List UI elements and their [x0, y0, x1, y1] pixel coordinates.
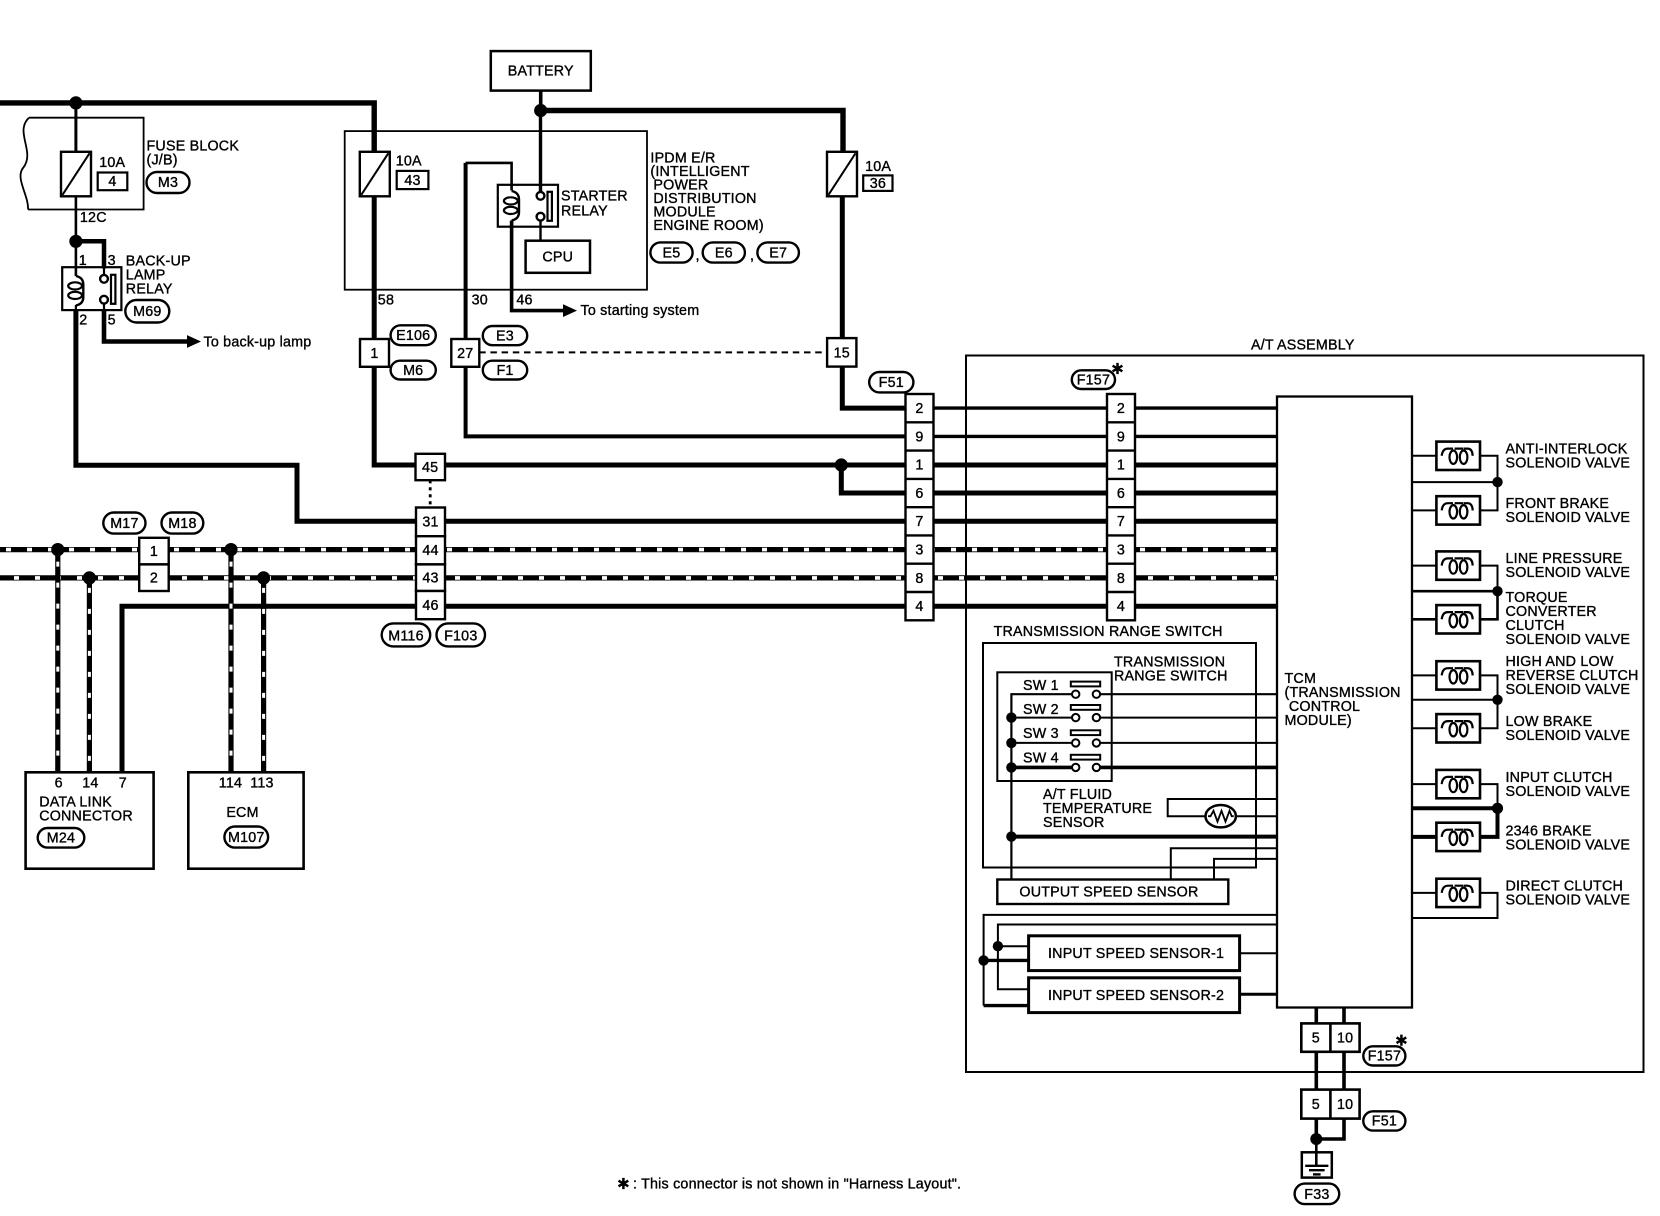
svg-text:M116: M116	[388, 628, 424, 644]
solenoid coil anti-interlock	[1436, 442, 1480, 470]
back-up lamp relay contact	[100, 275, 115, 304]
fuse 4	[61, 152, 91, 197]
connector column F157 pins 2 9 1 6 7 3 8 4	[1107, 394, 1135, 620]
solenoid coil line pressure	[1436, 551, 1480, 579]
svg-text:4: 4	[108, 174, 116, 190]
svg-text:F157: F157	[1368, 1049, 1401, 1065]
oval connector M107	[224, 827, 268, 848]
svg-text:5: 5	[1312, 1031, 1320, 1047]
switch SW1	[1071, 682, 1100, 698]
connector box F51 pins 5 10	[1301, 1090, 1359, 1119]
svg-text:44: 44	[422, 543, 438, 559]
svg-text:M18: M18	[168, 516, 196, 532]
wire input speed sensor ground loop outer	[984, 915, 1277, 1006]
footnote asterisk	[619, 1178, 629, 1189]
input speed sensor-1 box	[1029, 936, 1240, 971]
wire dashed ECM pin 114 drop	[228, 550, 233, 773]
svg-text:E6: E6	[715, 245, 733, 261]
svg-text:2: 2	[915, 401, 923, 417]
oval connector F103	[437, 623, 486, 646]
back-up lamp relay coil	[68, 276, 83, 306]
svg-text:46: 46	[422, 598, 438, 614]
wire output speed sensor signal 1	[1171, 848, 1277, 879]
svg-text:45: 45	[422, 460, 438, 476]
svg-text:E7: E7	[769, 245, 787, 261]
svg-text:7: 7	[1117, 514, 1125, 530]
svg-text:TRANSMISSION RANGE SWITCH: TRANSMISSION RANGE SWITCH	[994, 624, 1223, 640]
svg-text:ECM: ECM	[226, 805, 258, 821]
svg-text:F1: F1	[496, 363, 513, 379]
oval connector E5	[650, 242, 692, 262]
CPU box	[526, 241, 590, 273]
svg-text:A/T ASSEMBLY: A/T ASSEMBLY	[1251, 338, 1355, 354]
connector box F157 pins 5 10	[1301, 1023, 1359, 1051]
svg-text:INPUT SPEED SENSOR-2: INPUT SPEED SENSOR-2	[1048, 988, 1224, 1004]
wire row pin 7	[906, 519, 1278, 524]
svg-text:M6: M6	[403, 363, 423, 379]
IPDM E/R box	[345, 131, 647, 290]
node SW3 junction	[1006, 738, 1016, 748]
svg-text:To back-up lamp: To back-up lamp	[204, 334, 312, 350]
solenoid coil torque converter clutch	[1436, 605, 1480, 633]
svg-text:CONNECTOR: CONNECTOR	[39, 808, 133, 824]
oval connector M69	[125, 300, 169, 323]
starter relay coil	[504, 191, 519, 221]
svg-text:F33: F33	[1304, 1187, 1329, 1203]
fuse number cell 36	[863, 175, 892, 192]
starter relay box	[498, 185, 558, 227]
node bus1 to ECM	[224, 543, 237, 556]
svg-text:SOLENOID VALVE: SOLENOID VALVE	[1506, 456, 1631, 472]
A/T ASSEMBLY box	[966, 338, 1644, 1073]
input speed sensor-2 box	[1029, 978, 1240, 1013]
wire input speed sensor-1 output	[1240, 952, 1277, 954]
svg-text:RELAY: RELAY	[561, 204, 608, 220]
svg-text:E106: E106	[396, 328, 430, 344]
svg-text:5: 5	[1312, 1097, 1320, 1113]
node bus2 to DLC	[83, 571, 96, 584]
svg-text:27: 27	[457, 346, 473, 362]
svg-text:MODULE): MODULE)	[1285, 713, 1352, 729]
wire SW4 to TCM bold	[1011, 766, 1277, 770]
connector cell 27 (E3/F1)	[451, 339, 479, 367]
svg-text:4: 4	[1117, 599, 1125, 615]
svg-text:10A: 10A	[99, 155, 125, 171]
wire solenoid common 1	[1412, 481, 1498, 483]
A/T fluid temperature sensor element	[1206, 805, 1236, 827]
oval connector M18	[162, 513, 204, 534]
asterisk F157 top	[1113, 363, 1123, 374]
node switch common junction	[1006, 831, 1016, 841]
svg-text:ENGINE ROOM): ENGINE ROOM)	[653, 218, 763, 234]
svg-text:3: 3	[108, 253, 116, 269]
svg-text:(J/B): (J/B)	[147, 152, 178, 168]
svg-text:SOLENOID VALVE: SOLENOID VALVE	[1506, 565, 1631, 581]
wire row pin 9	[906, 435, 1278, 438]
svg-text:SW 3: SW 3	[1023, 726, 1059, 742]
svg-text:36: 36	[870, 176, 886, 192]
svg-text:43: 43	[404, 173, 420, 189]
data link connector box	[26, 772, 154, 868]
svg-text:14: 14	[82, 776, 98, 792]
wire direct clutch solenoid loop	[1412, 893, 1498, 918]
svg-text:STARTER: STARTER	[561, 189, 628, 205]
svg-text:SOLENOID VALVE: SOLENOID VALVE	[1506, 838, 1631, 854]
svg-text:9: 9	[1117, 429, 1125, 445]
wire switch common bold to TCM	[1011, 835, 1277, 839]
svg-text:E5: E5	[663, 245, 681, 261]
svg-text:M69: M69	[133, 304, 161, 320]
oval connector F51 bottom	[1363, 1111, 1405, 1130]
node ground junction	[1310, 1133, 1322, 1145]
fuse 36	[827, 152, 857, 197]
wire low brake solenoid feed	[1412, 700, 1498, 729]
svg-text:43: 43	[422, 571, 438, 587]
node solenoid pair 3 junction	[1492, 695, 1502, 705]
node solenoid pair 4 junction	[1492, 803, 1503, 814]
svg-text:6: 6	[1117, 486, 1125, 502]
svg-text:31: 31	[422, 515, 438, 531]
wire fuse 43 output down through connector 1 to wire 45 run	[374, 196, 905, 465]
wire relay pin 5 contact to box bottom	[103, 304, 105, 311]
oval connector F157 top	[1072, 370, 1115, 389]
wire fuse 4 to back-up lamp relay pin 1 coil	[75, 196, 78, 276]
connector cells 31 44 43 46 (M116/F103)	[416, 508, 445, 620]
svg-text:M3: M3	[158, 175, 178, 191]
connector column F51 pins 2 9 1 6 7 3 8 4	[906, 394, 934, 620]
wire row pin 4 from data link connector pin 7	[122, 606, 1277, 772]
connector cell 1 (E106/M6)	[360, 339, 389, 367]
oval connector M24	[38, 828, 85, 848]
svg-text:10A: 10A	[865, 159, 891, 175]
oval connector M3	[147, 172, 190, 193]
wire dotted connector 45 to 31	[429, 480, 432, 507]
svg-text:M107: M107	[228, 830, 265, 846]
connector cell 45 (M116/F103)	[416, 454, 446, 480]
svg-text:RELAY: RELAY	[126, 282, 173, 298]
svg-text:F51: F51	[1372, 1114, 1397, 1130]
wire battery top bus right	[541, 111, 843, 152]
svg-text:2: 2	[150, 571, 158, 587]
wire IPDM pin 30 coil feed	[466, 163, 512, 191]
oval connector E3	[483, 326, 527, 345]
oval connector F157 bottom	[1363, 1046, 1405, 1065]
wire input speed sensor ground loop inner	[998, 925, 1277, 990]
wire row pin 1	[906, 463, 1278, 468]
svg-text:SW 4: SW 4	[1023, 751, 1059, 767]
node battery junction	[534, 104, 547, 117]
svg-text:6: 6	[55, 776, 63, 792]
svg-text:M24: M24	[47, 831, 75, 847]
svg-text:8: 8	[915, 571, 923, 587]
svg-text:1: 1	[150, 544, 158, 560]
wire branch junction down to F51 pin 6	[841, 465, 905, 493]
svg-text:114: 114	[219, 776, 242, 792]
svg-text:SOLENOID VALVE: SOLENOID VALVE	[1506, 893, 1631, 909]
fuse 43	[360, 152, 390, 197]
wire battery to starter relay contact	[539, 111, 542, 193]
svg-text:,: ,	[750, 248, 754, 264]
svg-text:M17: M17	[110, 516, 138, 532]
svg-text:58: 58	[378, 293, 394, 309]
svg-text:: This connector is not shown: : This connector is not shown in "Harnes…	[633, 1176, 961, 1192]
svg-text:E3: E3	[496, 328, 514, 344]
svg-text:10: 10	[1337, 1097, 1353, 1113]
output speed sensor box	[997, 880, 1228, 905]
node SW2 junction	[1006, 712, 1016, 722]
svg-text:4: 4	[915, 599, 923, 615]
wire SW1 to TCM	[1011, 694, 1277, 879]
arrow to starting system	[563, 304, 577, 317]
svg-text:OUTPUT SPEED SENSOR: OUTPUT SPEED SENSOR	[1019, 885, 1198, 901]
wire SW2 to TCM	[1011, 717, 1277, 719]
wire row F51-F157-TCM pin 2	[906, 406, 1278, 409]
switch SW2	[1071, 705, 1100, 721]
wire dashed connector 27 to 15	[479, 351, 827, 353]
svg-text:SOLENOID VALVE: SOLENOID VALVE	[1506, 784, 1631, 800]
wire input speed sensor-1 feed	[998, 945, 1029, 947]
svg-text:12C: 12C	[80, 210, 107, 226]
wire output speed sensor signal 2	[1214, 859, 1277, 880]
svg-text:INPUT SPEED SENSOR-1: INPUT SPEED SENSOR-1	[1048, 946, 1224, 962]
wire dashed ECM pin 113 drop	[261, 578, 266, 772]
oval connector M6	[391, 361, 436, 380]
wire input speed sensor-2 output	[1240, 993, 1277, 996]
svg-text:2: 2	[79, 313, 87, 329]
wire relay coil to box bottom pin 2	[75, 305, 77, 311]
svg-text:,: ,	[696, 248, 700, 264]
node junction fuse block feed	[69, 96, 82, 109]
solenoid coil low brake	[1436, 714, 1480, 742]
svg-text:1: 1	[1117, 458, 1125, 474]
svg-text:5: 5	[108, 313, 116, 329]
node bus2 to ECM	[257, 571, 270, 584]
switch SW3	[1071, 730, 1100, 746]
node junction back-up lamp relay	[69, 235, 82, 248]
node junction wire 45 run	[835, 458, 848, 471]
svg-text:F103: F103	[444, 628, 477, 644]
svg-text:10A: 10A	[396, 153, 422, 169]
oval connector F33	[1295, 1184, 1340, 1205]
wire starter relay coil to starting system arrow	[512, 221, 564, 311]
arrow to back-up lamp	[187, 335, 201, 348]
oval connector E106	[391, 325, 436, 345]
node SW4 junction	[1006, 762, 1016, 772]
wire row pin 6	[906, 491, 1278, 496]
fuse block J/B box	[21, 118, 144, 210]
svg-text:F51: F51	[879, 375, 904, 391]
wire anti-interlock solenoid feed	[1412, 456, 1498, 482]
node solenoid pair 2 junction	[1492, 586, 1502, 596]
svg-text:8: 8	[1117, 571, 1125, 587]
oval connector E7	[757, 242, 799, 262]
node bus1 to DLC	[51, 543, 64, 556]
wire IPDM pin 30 to connector 27 and F51 pin 9	[466, 163, 906, 437]
svg-text:113: 113	[250, 776, 273, 792]
wire to ground	[1315, 1139, 1318, 1166]
svg-text:10: 10	[1337, 1031, 1353, 1047]
fuse number cell 4	[98, 173, 128, 191]
wire solenoid common 2	[1412, 590, 1498, 593]
wire relay pin 5 to back-up lamp arrow	[104, 310, 189, 342]
transmission range switch inner box	[997, 672, 1111, 781]
wire high and low reverse clutch solenoid feed	[1412, 675, 1498, 699]
oval connector M116	[382, 623, 431, 646]
wire torque converter clutch solenoid feed	[1412, 591, 1498, 619]
ECM box	[188, 772, 303, 868]
connector cells 1 2 (M17/M18)	[139, 538, 169, 591]
svg-text:SENSOR: SENSOR	[1043, 815, 1105, 831]
transmission range switch outer box	[983, 643, 1256, 868]
wire input speed sensor-1 bold feed	[984, 959, 1029, 962]
node solenoid pair 1 junction	[1492, 477, 1502, 487]
solenoid coil front brake	[1436, 496, 1480, 524]
svg-text:RANGE SWITCH: RANGE SWITCH	[1114, 669, 1228, 685]
wire front brake solenoid feed	[1412, 482, 1498, 510]
connector cell 15 (F51)	[827, 338, 856, 367]
svg-text:SOLENOID VALVE: SOLENOID VALVE	[1506, 728, 1631, 744]
wire input clutch solenoid feed	[1412, 784, 1498, 808]
svg-text:7: 7	[119, 776, 127, 792]
svg-text:SOLENOID VALVE: SOLENOID VALVE	[1506, 632, 1631, 648]
solenoid coil 2346 brake	[1436, 823, 1480, 851]
oval connector F51 top	[869, 372, 913, 392]
solenoid coil input clutch	[1436, 770, 1480, 798]
wire TCM ground pin 10	[1316, 1008, 1344, 1140]
wire battery top bus left	[0, 103, 374, 152]
A/T fluid temperature sensor wires	[1168, 799, 1277, 816]
battery box	[491, 51, 591, 91]
wire battery down	[539, 90, 543, 111]
svg-text:3: 3	[915, 543, 923, 559]
wire junction to fuse 4	[74, 103, 77, 152]
wire 2346 brake solenoid feed bold	[1412, 808, 1498, 837]
svg-text:F157: F157	[1077, 372, 1110, 388]
svg-text:SW 2: SW 2	[1023, 702, 1059, 718]
solenoid coil direct clutch	[1436, 879, 1480, 907]
solenoid coil high and low reverse clutch	[1436, 661, 1480, 689]
starter relay contact	[537, 192, 552, 221]
wire solenoid common 4 bold	[1412, 806, 1498, 810]
svg-text:1: 1	[915, 458, 923, 474]
fuse number cell 43	[397, 171, 429, 189]
wire dashed DLC pin 6 drop	[55, 550, 60, 773]
svg-text:3: 3	[1117, 543, 1125, 559]
wire line pressure solenoid feed	[1412, 566, 1498, 592]
wire dashed DLC pin 14 drop	[87, 578, 92, 772]
wire solenoid common 3	[1412, 699, 1498, 701]
switch SW4	[1071, 755, 1100, 771]
svg-text:6: 6	[915, 486, 923, 502]
wire starter relay contact to CPU	[539, 221, 541, 242]
svg-text:SOLENOID VALVE: SOLENOID VALVE	[1506, 510, 1631, 526]
svg-text:7: 7	[915, 514, 923, 530]
svg-text:SOLENOID VALVE: SOLENOID VALVE	[1506, 682, 1631, 698]
wire shield bus 1 dashed	[0, 547, 1277, 552]
svg-text:BATTERY: BATTERY	[508, 64, 574, 80]
wire shield bus 2 dashed	[0, 575, 1277, 580]
svg-text:1: 1	[79, 253, 87, 269]
wire TCM ground pin 5	[1315, 1008, 1319, 1140]
wire relay pin 2 down	[76, 310, 906, 521]
asterisk F157 bottom	[1397, 1035, 1407, 1046]
svg-text:CPU: CPU	[542, 250, 573, 266]
wire fuse 36 down through connector 15 to F51 pin 2	[842, 194, 905, 408]
node ISS-1 bold feed junction	[978, 955, 988, 965]
ground symbol F33	[1302, 1152, 1332, 1177]
TCM box	[1277, 397, 1412, 1008]
node ISS-1 feed junction	[993, 941, 1003, 951]
wire SW3 to TCM	[1011, 742, 1277, 744]
svg-text:1: 1	[370, 346, 378, 362]
svg-text:15: 15	[834, 345, 850, 361]
svg-text:To starting system: To starting system	[581, 303, 700, 319]
oval connector M17	[103, 513, 145, 534]
svg-text:46: 46	[516, 293, 532, 309]
oval connector E6	[703, 242, 745, 262]
svg-text:SW 1: SW 1	[1023, 678, 1059, 694]
svg-text:2: 2	[1117, 401, 1125, 417]
oval connector F1	[483, 361, 527, 380]
wire junction to relay pin 3	[76, 241, 104, 268]
svg-text:9: 9	[915, 429, 923, 445]
back-up lamp relay box	[62, 267, 121, 310]
svg-text:30: 30	[472, 293, 488, 309]
